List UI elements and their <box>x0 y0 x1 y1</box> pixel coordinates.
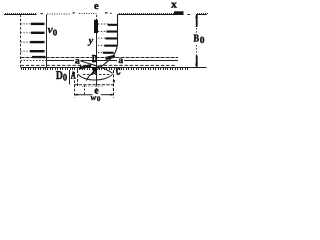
v0 arrow 4 shaft <box>21 50 32 52</box>
svg-text:B: B <box>194 33 200 44</box>
line y60.5 right <box>124 60 178 62</box>
B0 dim top arrowhead <box>195 15 198 18</box>
line y60.5 solid a-b <box>47 60 74 62</box>
dash right of C <box>117 74 120 76</box>
right rung 5 head <box>103 52 114 54</box>
B0 dotted upper <box>196 28 198 34</box>
dim edge x84.7 dashed <box>84 85 86 94</box>
v0 arrow 2 head <box>31 32 45 34</box>
line y60.5 middle <box>81 60 118 62</box>
line y57 dashed <box>21 57 179 59</box>
rotation arrow right <box>106 56 116 58</box>
svg-text:0: 0 <box>97 95 101 103</box>
ground hatch ticks left <box>6 13 36 14</box>
svg-text:0: 0 <box>200 36 205 46</box>
centerline dash at x73 <box>73 12 75 14</box>
centerline dotted 47-71 <box>47 13 71 15</box>
pile cap black rect <box>94 20 98 33</box>
B0 dotted lower <box>196 45 198 56</box>
ground surface line (right segment) <box>118 14 184 16</box>
svg-text:a: a <box>118 56 123 66</box>
ground surface line (left segment) <box>4 14 37 16</box>
plate diameter dashed <box>83 74 111 76</box>
box right edge dashed <box>113 70 115 98</box>
svg-text:A: A <box>71 70 76 81</box>
line y65 dashed <box>21 64 176 66</box>
v0 arrow 5 head on line y57 <box>32 56 46 58</box>
svg-text:e: e <box>94 1 99 12</box>
svg-text:0: 0 <box>53 27 58 37</box>
line y60.5 left dotted part <box>21 60 48 62</box>
rotation arrow left <box>80 65 91 68</box>
faint dashes y86.3 <box>82 85 103 87</box>
w0 arrow right <box>110 94 113 96</box>
ground hatch ticks right <box>120 13 208 14</box>
dim edge x74 dashed <box>74 72 76 98</box>
w0 dim line right <box>101 94 114 96</box>
deflected pile curve <box>86 45 117 81</box>
secondary arc through crossing <box>81 61 113 73</box>
v0 arrow 3 shaft <box>21 41 32 43</box>
right rung 3 head <box>105 37 117 39</box>
centerline dotted 79-96 <box>79 13 96 15</box>
w0 dim line left <box>74 94 92 96</box>
box bottom edge <box>74 84 114 86</box>
pile axis dashed above cap <box>96 15 98 20</box>
v0 arrow 4 head <box>30 50 45 52</box>
svg-text:D: D <box>92 54 97 65</box>
svg-text:x: x <box>171 0 178 11</box>
v0 arrow 1 shaft <box>21 23 33 25</box>
right rung 1 shaft <box>98 23 108 25</box>
tick at x80.6 <box>80 65 82 70</box>
pile axis line <box>96 33 98 85</box>
B0 dim top bar <box>196 15 198 27</box>
centerline dot at x110 <box>110 12 112 14</box>
w0 arrow left <box>74 94 77 96</box>
svg-text:a: a <box>75 56 80 66</box>
right rung 5 shaft <box>98 52 104 54</box>
plate bottom arc <box>78 74 112 80</box>
svg-text:w: w <box>91 92 97 102</box>
right rung 4 shaft <box>98 44 105 46</box>
svg-text:0: 0 <box>63 72 67 83</box>
B0 dim bottom bar <box>196 56 198 67</box>
tick on box right edge <box>113 80 115 82</box>
left diagram dashed edge x20 <box>20 15 22 68</box>
ground line bottom <box>21 67 207 69</box>
x-axis arrow bar <box>174 11 184 14</box>
right rung 1 head <box>108 24 118 26</box>
wall face line x47 <box>46 15 48 68</box>
divider line left of A <box>69 70 71 85</box>
pile axis dashed to dim line <box>96 85 98 95</box>
v0 arrow 1 head <box>31 23 45 25</box>
initial pile position line x117.5 <box>117 15 119 45</box>
right rung 4 head <box>104 45 117 47</box>
bottom hatch ticks <box>22 68 188 70</box>
right rung 2 shaft <box>98 30 107 32</box>
svg-text:B: B <box>92 67 97 77</box>
B0 dim bottom arrowhead <box>195 64 198 67</box>
right rung 3 shaft <box>98 37 106 39</box>
right rung 2 head <box>106 31 117 33</box>
centerline dash at x106 <box>105 12 108 14</box>
v0 arrow 2 shaft <box>21 32 33 34</box>
v0 arrow 3 head <box>30 41 44 43</box>
divider line right of A (box left edge) <box>77 70 79 86</box>
centerline dash at x41 <box>41 13 43 15</box>
svg-text:y: y <box>88 35 94 46</box>
